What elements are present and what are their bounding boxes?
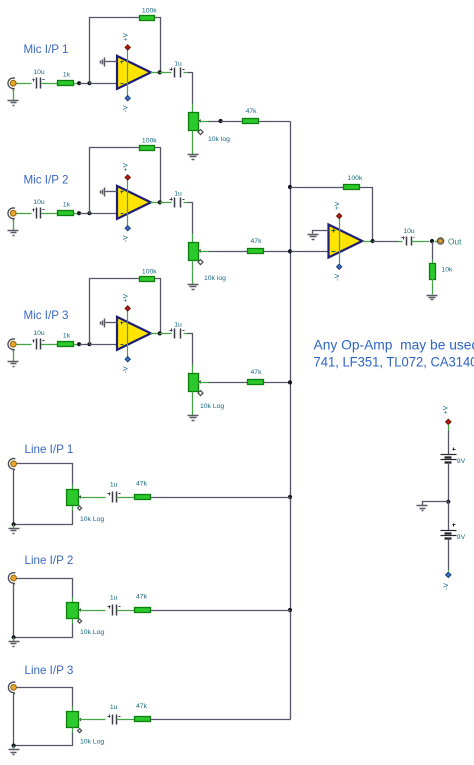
potentiometer VR2 value label [204, 275, 226, 282]
wire feedback right side mic1 [155, 18, 161, 73]
wire wiper to node mic1 [209, 121, 221, 123]
ground below pot mic2 [188, 285, 199, 290]
potentiometer VR1 wiper marker [198, 130, 203, 135]
svg-text:10u: 10u [33, 199, 45, 206]
svg-text:Mic I/P 1: Mic I/P 1 [24, 43, 69, 56]
wire summing non-inverting to ground [313, 231, 329, 234]
lead into pot line3 [72, 707, 74, 712]
capacitor 1u mic1 output [170, 61, 185, 78]
op-amp U4 -V label [334, 273, 341, 280]
op-amp U1 +V label [122, 32, 129, 41]
wire bus to summing 100k [291, 187, 344, 189]
wire mic1 connector to C1a [17, 83, 32, 85]
lead cap to 47k line1 [117, 497, 135, 499]
svg-text:1u: 1u [110, 595, 118, 602]
svg-text:-V: -V [122, 235, 129, 242]
lead to output cap mic1 [160, 72, 172, 74]
svg-text:100k: 100k [348, 175, 363, 182]
wire 47k to bus mic3 [264, 382, 291, 384]
op-amp U3 [117, 317, 151, 350]
resistor 47k mic3 [248, 369, 264, 385]
wire line2 top [17, 579, 73, 598]
node bus mic2 [288, 249, 292, 253]
pot2 bottom lead [192, 261, 194, 285]
wire bus to summing inverting input [291, 251, 329, 253]
op-amp U4 +V pin [337, 213, 342, 218]
ground line3 [9, 750, 20, 755]
summing output lead [363, 241, 373, 243]
ground line1 [9, 529, 20, 534]
lead from cap mic2 [184, 202, 188, 204]
op-amp U4 power rail [339, 217, 341, 267]
lead line1 to ground [13, 525, 15, 529]
lead line3 to ground [13, 746, 15, 750]
svg-text:-V: -V [122, 105, 129, 112]
node line3 ground junction [12, 744, 16, 748]
wire battery mid upper [448, 463, 450, 502]
wire op-amp3 non-inverting to ground [106, 322, 118, 324]
wire wiper to 47k mic2 [209, 251, 248, 253]
svg-text:+V: +V [122, 293, 129, 302]
svg-text:Out: Out [448, 236, 462, 246]
label Out [448, 236, 462, 246]
resistor 10k load [430, 264, 454, 280]
label Mic I/P 3 [24, 309, 69, 322]
op-amp U2 -V label [122, 235, 129, 242]
svg-text:1u: 1u [174, 61, 182, 68]
svg-text:10u: 10u [33, 69, 45, 76]
wire node A to node B mic1 [80, 83, 90, 85]
svg-text:100k: 100k [142, 137, 157, 144]
node op-amp2 output [158, 200, 162, 204]
label +V battery [442, 405, 449, 414]
svg-text:100k: 100k [142, 268, 157, 275]
wire feedback loop mic2 [90, 148, 140, 214]
resistor 100k mic3 feedback [140, 268, 158, 281]
potentiometer VR5 [67, 603, 82, 619]
ground at op-amp3 non-inverting input [101, 319, 105, 328]
svg-text:1u: 1u [110, 704, 118, 711]
svg-text:Line I/P 2: Line I/P 2 [25, 554, 74, 567]
svg-text:47k: 47k [246, 108, 258, 115]
svg-text:1u: 1u [174, 191, 182, 198]
potentiometer VR5 value label [80, 629, 104, 636]
potentiometer VR1 value label [208, 136, 230, 143]
svg-text:10k log: 10k log [204, 275, 226, 282]
lead into 10u out cap [399, 241, 403, 243]
label Line I/P 3 [25, 664, 74, 677]
lead from out cap [412, 241, 430, 243]
pot line1 wiper lead [79, 497, 106, 499]
ground below pot mic1 [188, 155, 199, 160]
lead 10k to ground [432, 279, 434, 295]
op-amp3 output lead [151, 333, 160, 335]
op-amp U4 +V label [334, 201, 341, 210]
op-amp U3 -V label [122, 366, 129, 373]
wire cap to pot mic2 [188, 203, 193, 234]
potentiometer VR2 wiper marker [198, 260, 203, 265]
node mic1 wiper [219, 119, 223, 123]
connector J1 mic input [8, 78, 16, 91]
potentiometer VR5 wiper marker [78, 619, 82, 623]
op-amp U4 -V pin [337, 264, 342, 269]
battery -V pin [446, 572, 451, 577]
svg-text:10k: 10k [442, 267, 454, 274]
svg-text:9V: 9V [457, 534, 466, 541]
svg-text:741, LF351, TL072, CA3140: 741, LF351, TL072, CA3140 [314, 354, 474, 369]
wire mixing bus vertical [290, 122, 292, 720]
resistor 47k mic1 [243, 108, 259, 124]
resistor 100k mic1 feedback [140, 7, 158, 20]
svg-text:10k Log: 10k Log [200, 403, 224, 410]
resistor 47k mic2 [248, 238, 264, 254]
op-amp U1 -V pin [125, 96, 130, 101]
note any op-amp text line 2 [314, 354, 474, 369]
wire node B to op-amp inverting input mic2 [90, 213, 118, 215]
wire op-amp2 non-inverting to ground [106, 191, 118, 193]
svg-text:Any Op-Amp may be used: Any Op-Amp may be used [314, 338, 474, 353]
wire line3 top [17, 688, 73, 707]
svg-text:+V: +V [122, 32, 129, 41]
lead from cap mic3 [184, 333, 188, 335]
svg-text:Line I/P 1: Line I/P 1 [25, 443, 74, 456]
pot line2 bottom lead [72, 619, 74, 624]
resistor 100k summing feedback [344, 175, 363, 190]
svg-text:47k: 47k [136, 481, 148, 488]
connector J4 line input [8, 459, 16, 472]
lead cap to 47k line2 [117, 610, 135, 612]
op-amp2 output lead [151, 202, 160, 204]
op-amp U1 -V label [122, 105, 129, 112]
svg-text:10k Log: 10k Log [80, 516, 104, 523]
node mic3 feedback junction [87, 342, 91, 346]
battery B1 9V [441, 448, 466, 466]
wire battery mid lower [448, 502, 450, 531]
lead line2 to ground [13, 638, 15, 642]
potentiometer VR3 [189, 374, 201, 392]
ground at summing non-inverting input [308, 235, 319, 240]
connector J7 output [437, 238, 443, 244]
op-amp U3 non-inverting + mark [121, 322, 124, 325]
wire node B to op-amp inverting input mic1 [90, 83, 118, 85]
capacitor 1u mic3 output [170, 322, 185, 339]
pot1 bottom lead [192, 131, 194, 155]
node bus line2 [288, 608, 292, 612]
lead into pot mic1 [192, 104, 194, 113]
potentiometer VR4 [67, 490, 82, 506]
wire line1 bottom loop [14, 511, 73, 525]
node op-amp3 output [158, 331, 162, 335]
op-amp U3 +V pin [125, 306, 130, 311]
lead cap to 47k line3 [117, 719, 135, 721]
svg-text:1k: 1k [63, 333, 71, 340]
node mic3 input A [77, 342, 81, 346]
svg-text:10k Log: 10k Log [80, 739, 104, 746]
wire output node to 10k [432, 242, 434, 260]
label -V battery [443, 583, 450, 590]
svg-text:+V: +V [122, 162, 129, 171]
svg-text:47k: 47k [251, 369, 263, 376]
op-amp U2 +V label [122, 162, 129, 171]
wire 47k to bus mic1 [259, 121, 291, 123]
pot line1 bottom lead [72, 506, 74, 511]
wire op-amp1 non-inverting to ground [106, 61, 118, 63]
ground below 10k [427, 296, 438, 300]
pot3 bottom lead [192, 392, 194, 416]
svg-text:1u: 1u [174, 322, 182, 329]
resistor 47k line1 [135, 481, 151, 500]
wire summing feedback right [360, 188, 373, 242]
svg-text:9V: 9V [457, 458, 466, 465]
label Line I/P 1 [25, 443, 74, 456]
pot2 wiper lead [198, 251, 209, 253]
node battery mid [446, 500, 450, 504]
connector J5 line input [8, 573, 16, 586]
svg-text:+V: +V [334, 201, 341, 210]
svg-text:-V: -V [122, 366, 129, 373]
lead into pot mic2 [192, 234, 194, 243]
node mic1 input A [77, 81, 81, 85]
ground at mic input 1 [8, 101, 19, 106]
wire 47k to bus line2 [151, 610, 291, 612]
ground at mic input 2 [8, 231, 19, 236]
wire battery mid to ground [423, 502, 449, 506]
op-amp U3 -V pin [125, 357, 130, 362]
pot line3 bottom lead [72, 728, 74, 733]
wire output to cap [373, 241, 399, 243]
wire feedback right side mic3 [155, 279, 161, 334]
lead to out connector [435, 241, 438, 243]
node mic2 feedback junction [87, 211, 91, 215]
label Mic I/P 1 [24, 43, 69, 56]
lead into pot line2 [72, 598, 74, 603]
potentiometer VR2 [189, 243, 201, 261]
svg-text:-V: -V [334, 273, 341, 280]
wire wiper to 47k mic3 [209, 382, 248, 384]
ground line2 [9, 642, 20, 647]
svg-text:10u: 10u [33, 330, 45, 337]
ground at op-amp1 non-inverting input [101, 58, 105, 67]
svg-text:47k: 47k [136, 594, 148, 601]
battery bottom lead [448, 570, 450, 572]
lead 1k to node mic3 [74, 344, 80, 346]
wire cap to pot mic1 [188, 73, 193, 104]
op-amp U3 power rail [127, 309, 129, 360]
node mic1 feedback junction [87, 81, 91, 85]
op-amp U1 power rail [127, 48, 129, 99]
wire line2 bottom loop [14, 624, 73, 638]
node bus line1 [288, 495, 292, 499]
wire C to R mic1 [42, 83, 58, 85]
connector J3 ground lead [13, 351, 15, 362]
wire feedback loop mic3 [90, 279, 140, 345]
connector J3 mic input [8, 339, 16, 352]
svg-text:47k: 47k [136, 703, 148, 710]
op-amp U1 inverting - mark [121, 83, 124, 85]
connector J2 mic input [8, 208, 16, 221]
op-amp U2 non-inverting + mark [121, 191, 124, 194]
wire feedback loop mic1 [90, 18, 140, 84]
node line1 ground junction [12, 522, 16, 526]
wire node B to op-amp inverting input mic3 [90, 344, 118, 346]
op-amp U1 [117, 56, 151, 89]
svg-text:1k: 1k [63, 72, 71, 79]
wire battery B2 to -V [448, 539, 450, 570]
label Mic I/P 2 [24, 174, 69, 187]
battery top lead [448, 425, 450, 431]
pot line2 wiper lead [79, 610, 106, 612]
op-amp U3 inverting - mark [121, 344, 124, 346]
op-amp U2 +V pin [125, 175, 130, 180]
wire C to R mic2 [42, 213, 58, 215]
wire 47k to bus line3 [151, 719, 291, 721]
battery B2 9V [441, 524, 466, 541]
op-amp U1 +V pin [125, 45, 130, 50]
resistor 100k mic2 feedback [140, 137, 158, 150]
lead into pot mic3 [192, 365, 194, 374]
ground battery mid [417, 506, 428, 511]
svg-text:47k: 47k [251, 238, 263, 245]
lead from cap mic1 [184, 72, 188, 74]
wire 47k to bus mic2 [264, 251, 291, 253]
wire mic3 connector to C3a [17, 344, 32, 346]
op-amp U2 inverting - mark [121, 213, 124, 215]
wire line1 top [17, 464, 73, 485]
wire feedback right side mic2 [155, 148, 161, 203]
node bus mic3 [288, 380, 292, 384]
lead into pot line1 [72, 485, 74, 490]
op-amp U2 [117, 186, 151, 219]
resistor 47k line3 [135, 703, 151, 721]
svg-text:Mic I/P 3: Mic I/P 3 [24, 309, 69, 322]
node summing output [371, 239, 375, 243]
resistor 1k mic1 [58, 72, 74, 86]
ground at mic input 3 [8, 362, 19, 367]
node line2 ground junction [12, 635, 16, 639]
potentiometer VR6 value label [80, 739, 104, 746]
connector J2 ground lead [13, 220, 15, 231]
svg-text:+V: +V [442, 405, 449, 414]
op-amp U4 inverting - mark [332, 251, 336, 253]
svg-text:10k Log: 10k Log [80, 629, 104, 636]
ground below pot mic3 [188, 416, 199, 421]
svg-text:-V: -V [443, 583, 450, 590]
potentiometer VR3 wiper marker [198, 391, 203, 396]
resistor 47k line2 [135, 594, 151, 613]
wire 47k to bus line1 [151, 497, 291, 499]
connector J1 ground lead [13, 90, 15, 101]
wire to 47k mic1 [221, 121, 243, 123]
node mic2 input A [77, 211, 81, 215]
capacitor 1u line1 [108, 482, 121, 503]
svg-text:100k: 100k [142, 7, 157, 14]
lead to output cap mic2 [160, 202, 172, 204]
capacitor 10u mic2 [33, 199, 45, 219]
wire line1 connector ground drop [13, 471, 15, 525]
op-amp U3 +V label [122, 293, 129, 302]
lead to output cap mic3 [160, 333, 172, 335]
pot1 wiper lead [198, 121, 209, 123]
node op-amp1 output [158, 70, 162, 74]
svg-text:Line I/P 3: Line I/P 3 [25, 664, 74, 677]
potentiometer VR4 wiper marker [78, 506, 82, 510]
capacitor 1u mic2 output [170, 191, 185, 208]
capacitor 10u mic1 [33, 69, 45, 89]
svg-text:Mic I/P 2: Mic I/P 2 [24, 174, 69, 187]
node output [430, 239, 434, 243]
op-amp1 output lead [151, 72, 160, 74]
lead into 10k [432, 260, 434, 264]
capacitor 1u line3 [108, 704, 121, 724]
potentiometer VR1 [189, 113, 201, 131]
op-amp U4 [329, 225, 363, 258]
potentiometer VR6 [67, 712, 82, 728]
op-amp U2 power rail [127, 178, 129, 229]
lead 1k to node mic1 [74, 83, 80, 85]
capacitor 10u mic3 [33, 330, 45, 350]
potentiometer VR4 value label [80, 516, 104, 523]
svg-text:10u: 10u [403, 228, 415, 235]
wire to battery B1 [448, 431, 450, 455]
pot3 wiper lead [198, 382, 209, 384]
connector J6 line input [8, 682, 16, 695]
label Line I/P 2 [25, 554, 74, 567]
wire node A to node B mic3 [80, 344, 90, 346]
svg-text:1k: 1k [63, 202, 71, 209]
ground at op-amp2 non-inverting input [101, 188, 105, 197]
note any op-amp text line 1 [314, 338, 474, 353]
capacitor 1u line2 [108, 595, 121, 616]
wire line2 connector ground drop [13, 585, 15, 638]
resistor 1k mic2 [58, 202, 74, 216]
svg-text:1u: 1u [110, 482, 118, 489]
lead 1k to node mic2 [74, 213, 80, 215]
potentiometer VR3 value label [200, 403, 224, 410]
op-amp U1 non-inverting + mark [121, 61, 124, 64]
wire cap to pot mic3 [188, 334, 193, 365]
battery +V pin [446, 419, 451, 424]
wire C to R mic3 [42, 344, 58, 346]
node bus feedback tap [288, 185, 292, 189]
wire node A to node B mic2 [80, 213, 90, 215]
capacitor 10u output [402, 228, 415, 246]
op-amp U2 -V pin [125, 226, 130, 231]
wire line3 bottom loop [14, 733, 73, 746]
pot line3 wiper lead [79, 719, 106, 721]
op-amp U4 non-inverting + mark [332, 229, 336, 233]
svg-text:10k log: 10k log [208, 136, 230, 143]
resistor 1k mic3 [58, 333, 74, 347]
wire mic2 connector to C2a [17, 213, 32, 215]
potentiometer VR6 wiper marker [78, 729, 82, 733]
wire line3 connector ground drop [13, 695, 15, 746]
